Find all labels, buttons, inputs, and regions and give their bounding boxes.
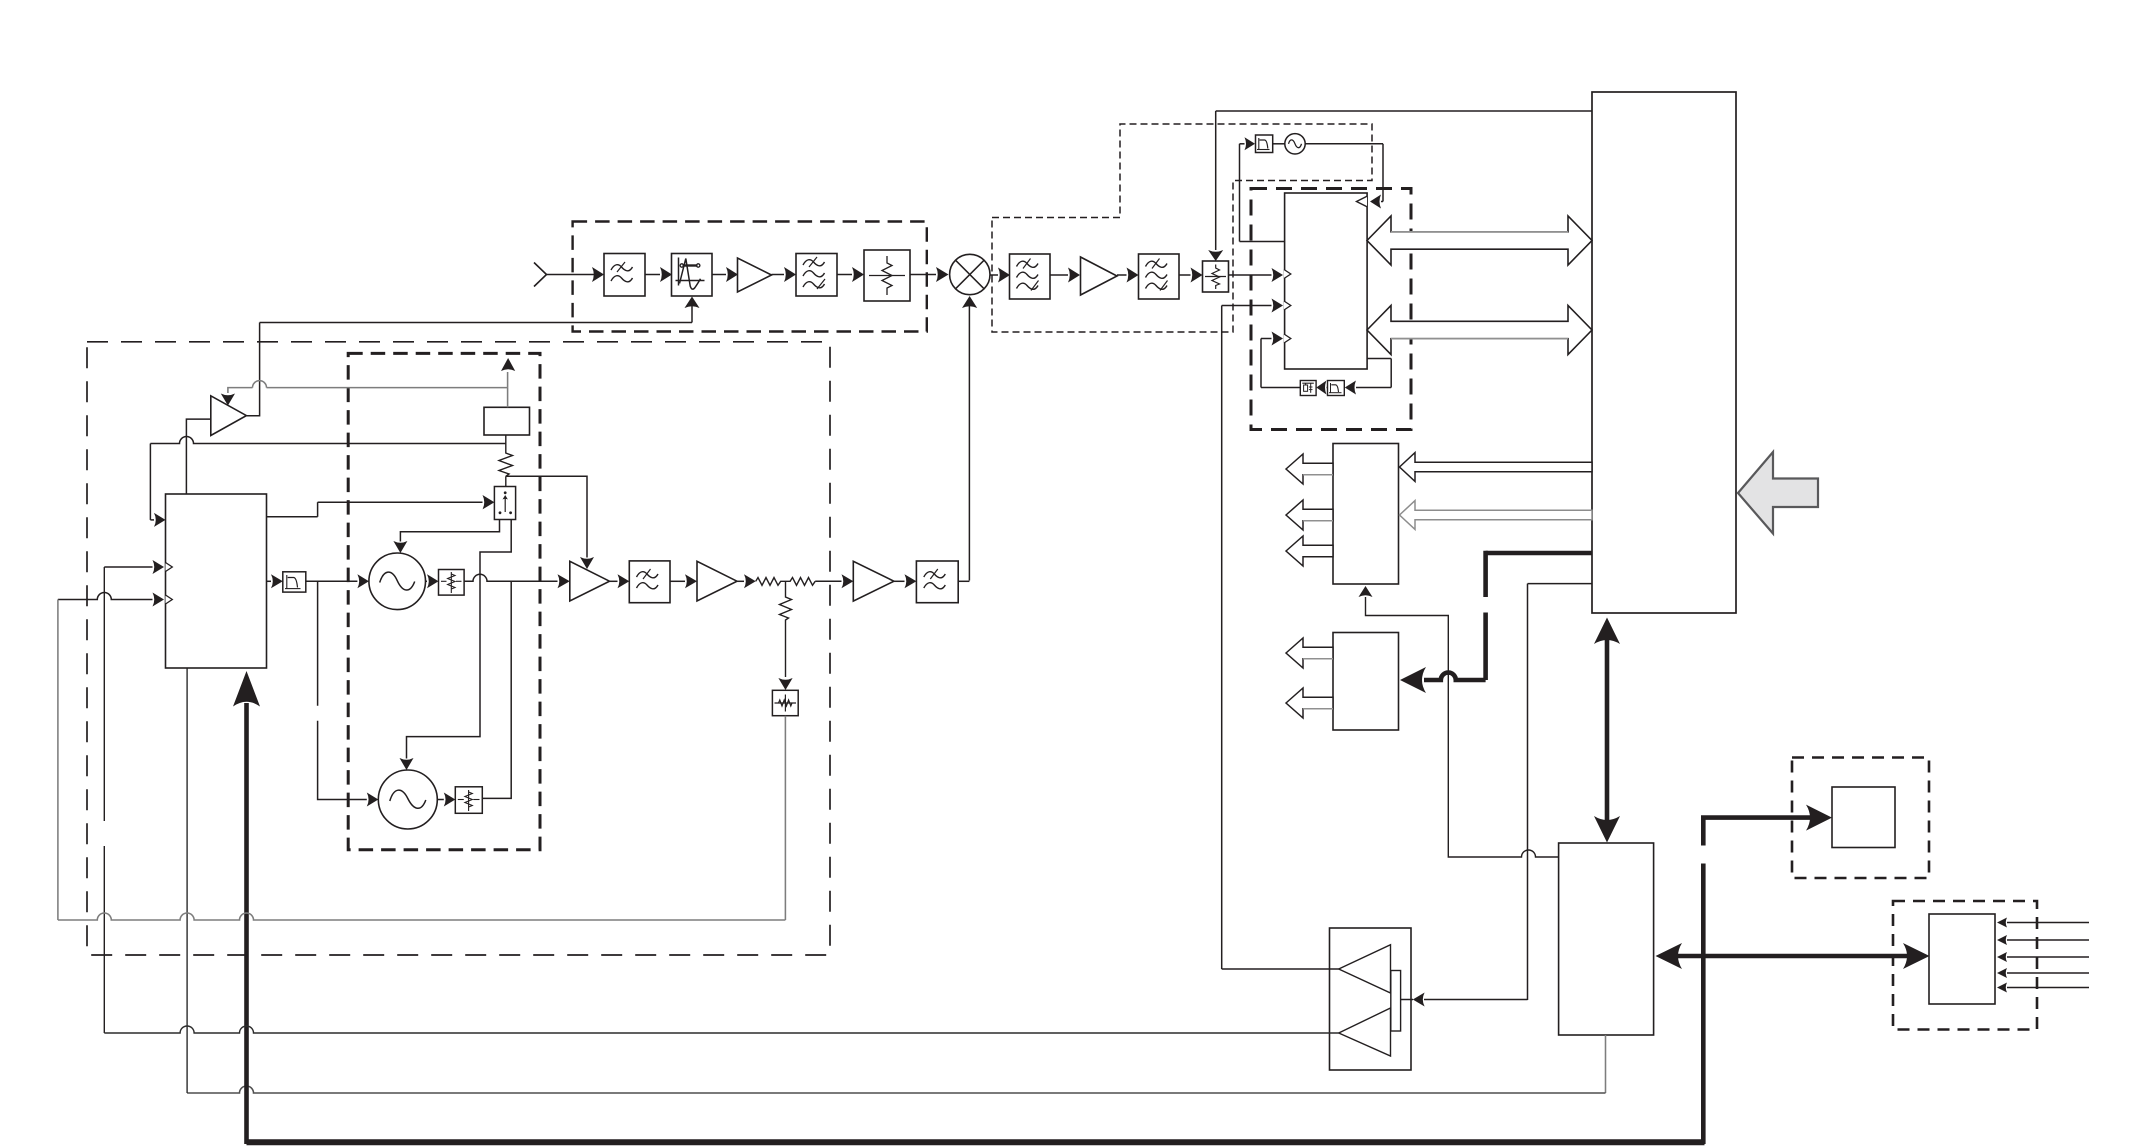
reference resistor R1 (499, 435, 513, 487)
MCU status wire (gray, bottom) (187, 1035, 1605, 1093)
gain control wire from FPGA to AT2 (1208, 111, 1592, 261)
DAC1 output arrow 1 (1286, 454, 1333, 484)
AGC up arrow head (501, 358, 515, 371)
PLL ref input wire in1 (150, 444, 165, 527)
wire AT2 to ADC input 1 (1229, 268, 1284, 282)
loop filter box LP2 (1328, 381, 1345, 396)
wire F5 to A6 (670, 574, 697, 588)
SECTION: RF front end (260, 222, 990, 581)
data bus arrow ADC-FPGA (upper) (1367, 216, 1592, 265)
PLL pin marker in2 (166, 563, 173, 572)
wire A1 to F2 (772, 267, 797, 282)
SECTION: bottom wires (58, 913, 1705, 1142)
SECTION: IF chain (990, 111, 1592, 332)
J2 input line 3 (1997, 952, 2089, 962)
DAC1 U4 (1333, 444, 1399, 585)
pin 2 marker (1284, 301, 1291, 310)
thick lock wire (bottom horizontal) (247, 1139, 1705, 1145)
thick power/ctrl trunk (right vertical) (1701, 818, 1817, 1144)
wire tee to A7 (815, 574, 853, 588)
connector J2 (1929, 914, 1995, 1004)
attenuator AT1 (864, 250, 910, 301)
buffer B1 output wire to ADC pin2 (1222, 968, 1339, 970)
external bus arrow (gray, into FPGA right) (1738, 452, 1818, 534)
DAC2 U5 (1333, 633, 1399, 731)
switch SW1 (494, 487, 515, 520)
F6 output wire to mixer LO (958, 580, 969, 582)
pin 3 marker (1284, 334, 1291, 343)
dashed box: synthesizer module (87, 342, 830, 955)
chain amp A7 (853, 561, 894, 601)
mixer M1 (950, 254, 990, 294)
dashed box: RF front-end module (573, 222, 927, 332)
detector output wire (gray) (784, 716, 786, 920)
switch throw B wire to VCO2 (400, 520, 512, 771)
VCO1 output wire (464, 574, 570, 798)
AGC wire (gray) (228, 372, 508, 407)
wire A6 to resistor tee (737, 574, 756, 588)
PLL U8 (166, 494, 267, 668)
wire mixer to F3 (990, 268, 1010, 283)
filter F6 (916, 561, 958, 603)
decimation filter box DF1 (1300, 381, 1316, 396)
microcontroller U6 (1559, 843, 1654, 1035)
debug connector J1 (1832, 787, 1895, 848)
reference LPF LP1 (1256, 135, 1273, 153)
ADC clock pin (hollow) (1357, 196, 1368, 206)
SECTION: synthesizer (58, 323, 970, 1145)
LO wire into mixer (962, 296, 977, 581)
resistor tee R4/R5 (756, 578, 816, 678)
J2 input line 5 (1997, 983, 2089, 993)
wire LP2 to DF1 (1316, 381, 1327, 395)
wire AT1 to mixer (910, 267, 949, 282)
switch throw A wire to VCO1 (393, 520, 499, 554)
DAC2 output arrow 2 (1286, 688, 1333, 718)
dashed box: debug port (1792, 758, 1929, 879)
thick arrow into debug box (1806, 805, 1832, 831)
PLL main output arrow to LPF (267, 574, 283, 588)
J2 input line 2 (1997, 935, 2089, 945)
thick control wire FPGA to DAC2 (1424, 551, 1592, 680)
PLL status wire (vertical from PLL) (186, 668, 188, 1093)
dashed box: VCO module (348, 353, 540, 849)
filter F2 (796, 254, 837, 297)
VCO1 output pad R2 (426, 570, 465, 596)
wire into LP1 (1240, 137, 1285, 241)
PLL pin marker in3 (166, 595, 173, 604)
thick arrow head into DAC2 (1400, 667, 1426, 693)
wire limiter to A1 (712, 267, 738, 282)
tune line wire (150, 437, 505, 444)
reference select box S1 (484, 407, 530, 435)
FPGA U3 (1592, 92, 1736, 613)
DAC2 output arrow 1 (1286, 638, 1333, 668)
filter F5 (629, 561, 670, 603)
PLL input wire in3 (58, 593, 164, 921)
ADC U2 (1285, 193, 1368, 369)
FPGA wire to output buffers (1401, 584, 1592, 1007)
wire A5 to F5 (610, 574, 630, 588)
oscillator to ADC clock wire (1305, 144, 1383, 209)
J2 input line 4 (1997, 968, 2089, 978)
PLL input wire in2 (104, 560, 164, 1033)
arrow into power detector (778, 678, 792, 690)
J2 input line 1 (1997, 918, 2089, 928)
chain amp A5 (570, 561, 610, 601)
bus arrow FPGA to DAC1 (lower, gray) (1400, 501, 1593, 530)
thick bus FPGA-MCU (vertical double arrow) (1594, 618, 1620, 843)
wire F4 to AT2 (1179, 268, 1203, 283)
SECTION: MCU and connectors (187, 618, 2089, 1145)
wire F3 to A2 (1050, 268, 1080, 283)
antenna ANT (534, 263, 596, 287)
A4 output wire to RF limiter feedback (246, 323, 259, 416)
detector feedback wire (gray horizontal) (58, 913, 786, 920)
wire antenna to F1 (592, 267, 604, 282)
output buffer box U7 (1330, 928, 1412, 1070)
wire F2 to AT1 (837, 267, 864, 282)
buffer output register (1391, 971, 1401, 1032)
amplifier A1 (738, 258, 772, 292)
SECTION: FPGA and DACs (1286, 92, 1818, 1007)
bus arrow FPGA to DAC1 (upper) (1400, 453, 1593, 482)
thick bus MCU-connector (horizontal double arrow) (1656, 943, 1930, 969)
buffer B2 wire to PLL in2 (long horizontal) (104, 1026, 1338, 1033)
filter F4 (IF bandpass) (1139, 254, 1180, 299)
buffer B2 (lower triangle) (1339, 1008, 1391, 1056)
variable attenuator AT2 (1203, 261, 1229, 292)
reference amp A4 (211, 396, 247, 436)
buffer B1 (upper triangle) (1339, 945, 1391, 993)
loop filter LP3 (283, 572, 306, 592)
VCO1 G2 (369, 553, 426, 610)
AGC down arrow into A4 (221, 394, 235, 406)
amplifier A2 (IF) (1081, 257, 1118, 295)
dashed box: ADC module (1251, 189, 1411, 430)
filter F3 (IF bandpass) (1010, 254, 1051, 299)
dashed box: control connector (1893, 901, 2037, 1030)
ADC input 2 wire from buffer (1222, 299, 1283, 970)
wire DF1 to ADC pin 3 (1261, 332, 1300, 388)
wire A7 to F6 (894, 574, 917, 588)
wire R1 junction to chain amp A5 (506, 476, 594, 569)
dashed outline: IF + clock module (stepped polygon) (992, 124, 1372, 332)
wire F1 to limiter (645, 267, 672, 282)
DAC1 sync wire from MCU (1359, 586, 1559, 857)
PLL top pin wire to amp A4 (186, 419, 210, 494)
chain amp A6 (697, 561, 737, 601)
data bus arrow ADC-FPGA (lower) (1367, 306, 1592, 355)
power detector AT3 (772, 690, 798, 715)
wire LP3 to VCO1 (306, 574, 369, 588)
DAC1 output arrow 3 (1286, 536, 1333, 566)
VCO2 G3 (378, 770, 437, 829)
filter F1 (preselector) (604, 254, 645, 297)
tuning branch wire to VCO2 (318, 581, 379, 806)
limiter U1 (672, 254, 713, 297)
crystal oscillator G1 (1273, 134, 1306, 154)
thick lock wire into PLL (233, 671, 260, 1144)
wire A2 to F4 (1117, 268, 1139, 283)
pin 1 marker (1284, 270, 1291, 279)
SECTION: ADC (1222, 189, 1592, 970)
VCO2 output pad R3 (437, 787, 482, 814)
ADC feedback loop wire (1345, 359, 1391, 395)
PLL comparison output wire to switch (267, 495, 495, 517)
DAC1 output arrow 2 (1286, 500, 1333, 530)
limiter AGC feedback wire (260, 297, 700, 323)
